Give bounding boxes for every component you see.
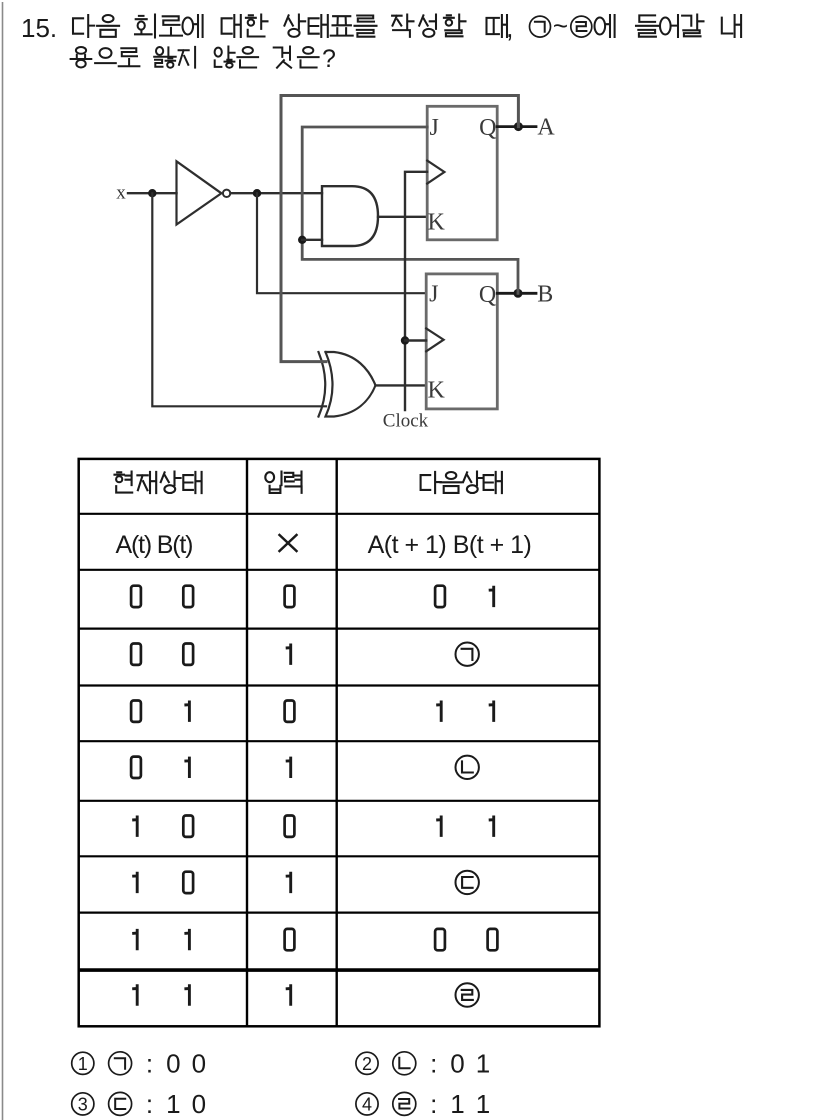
svg-text::: :	[146, 1048, 153, 1078]
inverter U1	[177, 161, 231, 224]
wire inverter output to FF B J input	[257, 193, 426, 293]
wire x input to inverter	[128, 192, 177, 194]
svg-text:~: ~	[553, 11, 568, 41]
svg-text:1: 1	[78, 1054, 88, 1074]
wire B feedback to FF A J input	[302, 127, 518, 293]
svg-text:0: 0	[450, 1049, 464, 1079]
svg-text:?: ?	[322, 45, 336, 73]
wire AND output to FF A K input	[378, 216, 427, 218]
table data rows	[131, 586, 497, 1007]
svg-text:A(t) B(t): A(t) B(t)	[116, 531, 193, 559]
svg-text::: :	[430, 1089, 437, 1119]
question text line 2	[71, 47, 319, 68]
table header row	[115, 472, 502, 494]
junction B output	[514, 289, 523, 298]
svg-text:3: 3	[78, 1094, 88, 1114]
svg-text:A: A	[537, 115, 555, 141]
JK flip-flop U5 (B) body	[426, 274, 497, 409]
svg-text:0: 0	[166, 1049, 180, 1079]
svg-text::: :	[430, 1048, 437, 1078]
svg-text:J: J	[430, 115, 439, 141]
svg-text::: :	[146, 1089, 153, 1119]
junction clock to FF B	[401, 336, 409, 344]
clock triangle U4	[427, 161, 444, 184]
svg-text:Clock: Clock	[383, 411, 429, 432]
svg-text:1: 1	[476, 1049, 490, 1079]
clock net wire	[405, 172, 427, 410]
svg-text:4: 4	[362, 1094, 372, 1114]
clock triangle U5	[426, 328, 443, 351]
svg-text:J: J	[429, 282, 438, 308]
junction inverter output	[253, 189, 261, 197]
wire clock to FF B clock input	[405, 339, 426, 341]
wire B feedback to AND gate bottom input	[302, 239, 322, 241]
junction B feedback to AND	[298, 236, 306, 244]
svg-text:1: 1	[166, 1089, 180, 1119]
junction A output	[514, 122, 523, 131]
svg-text:15.: 15.	[21, 13, 57, 43]
svg-text:Q: Q	[479, 282, 496, 308]
XOR gate U3	[319, 352, 376, 417]
svg-text:0: 0	[192, 1089, 206, 1119]
svg-text:K: K	[428, 378, 446, 404]
svg-text:1: 1	[476, 1089, 490, 1119]
svg-text:A(t + 1) B(t + 1): A(t + 1) B(t + 1)	[368, 531, 532, 559]
wire XOR output to FF B K input	[376, 384, 427, 386]
svg-text:Q: Q	[479, 115, 496, 141]
answer options	[72, 1048, 491, 1119]
wire inverter output to AND gate top input	[231, 192, 323, 194]
svg-text:2: 2	[362, 1054, 372, 1074]
svg-text:x: x	[116, 183, 126, 204]
svg-text:0: 0	[192, 1049, 206, 1079]
state table grid	[79, 459, 600, 1026]
svg-text:K: K	[428, 209, 446, 235]
wire FF B Q output to node B	[497, 292, 536, 295]
JK flip-flop U4 (A) body	[427, 106, 497, 240]
question text line 1	[73, 15, 741, 38]
svg-text:1: 1	[450, 1089, 464, 1119]
wire FF A Q output to node A	[497, 125, 536, 128]
junction x-net	[148, 189, 156, 197]
svg-text:,: ,	[506, 13, 514, 43]
wire x-net to XOR bottom input	[152, 193, 326, 406]
svg-text:B: B	[537, 281, 553, 307]
AND gate U2	[322, 186, 378, 246]
wire A feedback to XOR top input	[281, 96, 518, 362]
page left border	[2, 2, 4, 1120]
